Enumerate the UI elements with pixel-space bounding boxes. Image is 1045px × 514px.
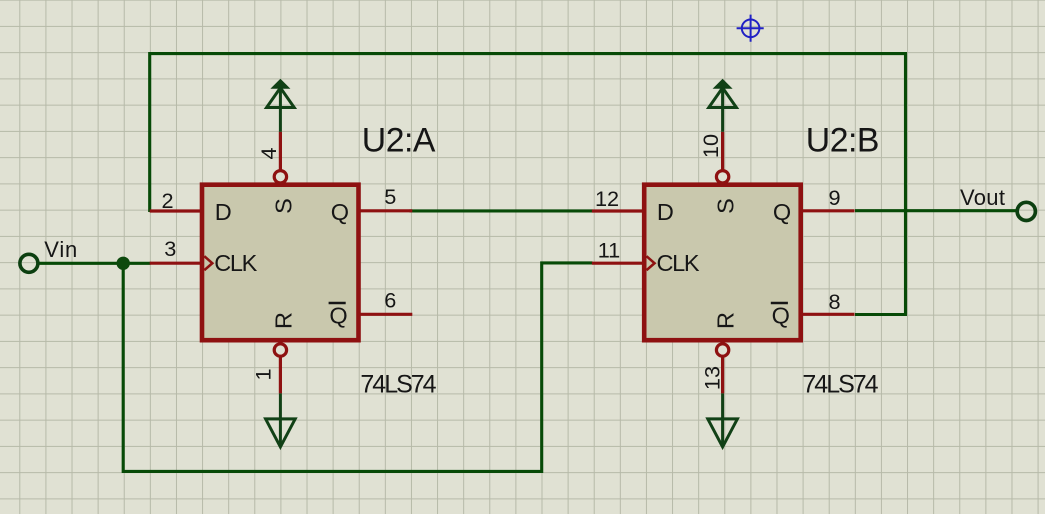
terminal Vin: [20, 254, 38, 272]
svg-text:9: 9: [829, 185, 841, 210]
svg-text:CLK: CLK: [214, 250, 257, 276]
pin 1 stub (R input, active-low): [279, 357, 282, 394]
svg-text:D: D: [657, 199, 674, 225]
pin 2 stub (D input): [150, 209, 202, 212]
svg-text:1: 1: [251, 368, 276, 380]
svg-text:U2:B: U2:B: [806, 122, 879, 160]
pin 5 stub (Q output): [359, 209, 413, 212]
wire: feedback from U2:B pin 8 up and across top to U2:A D input: [150, 54, 906, 315]
inversion bubble on S pin: [716, 171, 728, 183]
pin 11 stub (CLK input): [592, 262, 644, 265]
pin 8 stub (Qbar output): [801, 313, 855, 316]
svg-text:74LS74: 74LS74: [360, 370, 436, 398]
origin marker (blue crosshair): [737, 15, 764, 42]
wire: U2:B Q (pin 9) to Vout terminal: [855, 209, 1017, 212]
pin 6 stub (Qbar output): [359, 313, 413, 316]
inversion bubble on R pin: [716, 344, 728, 356]
svg-text:Q: Q: [773, 199, 791, 225]
pin 12 stub (D input): [592, 209, 644, 212]
pin 10 stub (S input, active-low): [721, 132, 724, 170]
svg-text:Q: Q: [329, 303, 347, 329]
svg-text:10: 10: [698, 134, 723, 158]
pin 13 stub (R input, active-low): [721, 357, 724, 394]
svg-text:12: 12: [595, 186, 619, 211]
svg-text:2: 2: [162, 188, 174, 213]
svg-text:11: 11: [598, 238, 621, 263]
svg-text:D: D: [215, 199, 232, 225]
svg-text:3: 3: [164, 236, 176, 261]
svg-text:5: 5: [384, 184, 396, 209]
junction dot at Vin/CLK node: [117, 257, 130, 270]
svg-text:CLK: CLK: [657, 250, 700, 276]
pin 3 stub (CLK input): [150, 262, 202, 265]
svg-text:Q: Q: [331, 199, 349, 225]
svg-text:R: R: [270, 312, 296, 329]
wire: U2:A Q (pin 5) to U2:B D (pin 12): [410, 209, 593, 212]
power terminal (VCC arrow) on S pin: [709, 80, 737, 132]
pin 9 stub (Q output): [801, 209, 855, 212]
inversion bubble on S pin: [274, 171, 286, 183]
power terminal (VCC arrow) on S pin: [267, 80, 295, 132]
svg-text:8: 8: [829, 289, 841, 314]
svg-text:S: S: [713, 198, 739, 214]
wire: Vin terminal to U2:A CLK (pin 3): [39, 262, 150, 265]
wire: Vin node down, across bottom, up to U2:B CLK (pin 11): [123, 263, 592, 472]
inversion bubble on R pin: [274, 344, 286, 356]
terminal Vout: [1017, 202, 1035, 220]
clock edge triangle on CLK pin: [647, 256, 655, 270]
flip-flop U2:B body (74LS74): [644, 185, 801, 341]
ground terminal (down arrow) on R pin: [708, 393, 738, 447]
svg-text:Q: Q: [772, 303, 790, 329]
svg-text:13: 13: [700, 366, 725, 390]
svg-text:Vout: Vout: [960, 185, 1005, 210]
pin 4 stub (S input, active-low): [279, 132, 282, 170]
svg-text:R: R: [713, 312, 739, 329]
flip-flop U2:A body (74LS74): [202, 185, 359, 341]
svg-text:74LS74: 74LS74: [802, 370, 878, 398]
svg-text:Vin: Vin: [44, 237, 78, 262]
svg-text:U2:A: U2:A: [362, 122, 436, 160]
svg-text:6: 6: [384, 288, 396, 313]
svg-text:4: 4: [256, 147, 281, 159]
ground terminal (down arrow) on R pin: [266, 393, 296, 447]
svg-text:S: S: [270, 198, 296, 214]
clock edge triangle on CLK pin: [204, 256, 212, 270]
